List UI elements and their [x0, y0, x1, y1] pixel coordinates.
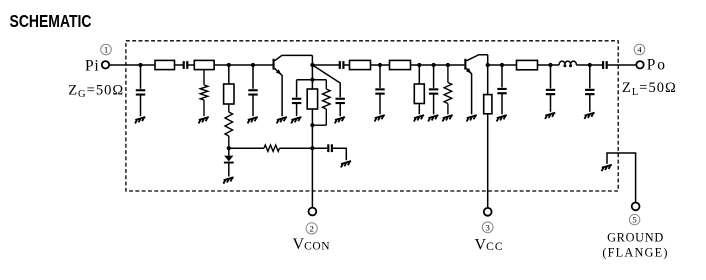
Vcon rail wire left	[229, 147, 264, 149]
node: bias rail junction	[310, 78, 314, 82]
capacitor C3 shunt	[252, 65, 254, 116]
terminal Po pin 4	[636, 61, 643, 68]
svg-text:3: 3	[486, 222, 490, 232]
ground D1	[223, 177, 233, 183]
module outline dashed box	[126, 41, 618, 191]
svg-text:(FLANGE): (FLANGE)	[602, 246, 668, 260]
capacitor C10 shunt	[550, 65, 552, 112]
svg-text:Po: Po	[647, 57, 667, 74]
resistor R4 shunt box	[228, 65, 230, 84]
resistor R5 zigzag below R4	[225, 104, 233, 148]
inductor L1	[559, 61, 576, 65]
node: C3 junction	[251, 63, 255, 67]
resistor R6 box bias	[311, 80, 313, 89]
ground flange	[602, 165, 612, 171]
pin 2 circled number	[306, 223, 317, 234]
resistor R14 zigzag on Vcon rail	[264, 145, 280, 151]
ground C7	[375, 115, 385, 121]
terminal Vcc pin 3	[484, 208, 492, 216]
pin 4 circled number	[634, 44, 645, 55]
svg-text:SCHEMATIC: SCHEMATIC	[10, 11, 92, 31]
wire: R1 to C2	[175, 64, 183, 66]
terminal ground flange pin 5	[632, 203, 640, 211]
wire: C13 to ground stub	[333, 148, 347, 160]
resistor R7 zigzag bias	[312, 80, 330, 126]
resistor R9	[390, 60, 411, 69]
wire: R8 to R9	[371, 64, 390, 66]
terminal Vcon pin 2	[309, 208, 317, 216]
capacitor C11 shunt	[589, 65, 591, 112]
diode D1	[228, 148, 230, 155]
capacitor C8 shunt	[433, 65, 435, 114]
ground C3	[248, 117, 258, 123]
node: C9 junction	[500, 63, 504, 67]
transistor Q2	[464, 59, 466, 70]
wire: C12 to Po terminal	[608, 64, 637, 66]
capacitor C5 with diagonal feed	[312, 65, 340, 97]
ground C11	[584, 113, 594, 119]
wire: bias rail horizontal	[297, 79, 327, 81]
node X collector junction	[310, 63, 314, 67]
node: Vcc junction	[486, 63, 490, 67]
pin 5 circled number	[629, 214, 639, 224]
svg-text:ZL=50Ω: ZL=50Ω	[622, 80, 677, 98]
resistor R8	[350, 60, 371, 69]
capacitor C12 series output	[602, 61, 608, 69]
pin 5 flange bracket wire	[607, 153, 636, 203]
wire: L1 to C12	[576, 64, 602, 66]
node: R10 junction	[417, 63, 421, 67]
pin 3 circled number	[482, 222, 493, 233]
wire: node X to C6	[312, 64, 339, 66]
node: Vcon junction	[310, 146, 314, 150]
ground R11	[443, 115, 453, 121]
capacitor C6 series	[339, 61, 345, 69]
svg-text:2: 2	[310, 223, 314, 233]
ground C5	[335, 117, 345, 123]
ground Q1 emitter	[277, 117, 287, 123]
svg-text:1: 1	[104, 45, 108, 55]
resistor R12	[517, 60, 538, 69]
resistor R2	[194, 60, 214, 69]
wire: node X down to bias rail	[311, 65, 313, 80]
wire: bias bottom to Vcon rail	[311, 125, 313, 148]
svg-text:GROUND: GROUND	[607, 231, 664, 245]
node: C10 junction	[548, 63, 552, 67]
ground R3	[199, 117, 209, 123]
wire: Q1 collector down to node X	[311, 55, 313, 65]
svg-text:Pi: Pi	[85, 57, 100, 74]
node: C8 junction	[432, 63, 436, 67]
wire: R9 to Q2 base	[411, 64, 465, 66]
node: bias bottom junction	[310, 123, 314, 127]
node: R11 junction	[446, 63, 450, 67]
capacitor C1 input shunt	[140, 65, 142, 116]
wire: C6 to R8	[344, 64, 349, 66]
svg-text:5: 5	[632, 215, 636, 225]
ground R10	[414, 115, 424, 121]
pin 1 circled number	[101, 44, 112, 55]
svg-text:4: 4	[637, 45, 642, 55]
wire: Vcon junction down to terminal	[311, 148, 313, 207]
capacitor C13 series on Vcon rail	[327, 144, 333, 152]
ground C1	[135, 117, 145, 123]
wire: Pi terminal to R1	[109, 64, 155, 66]
node: R4 top	[227, 63, 231, 67]
wire: C2 to R2	[188, 64, 194, 66]
node: input junction	[138, 63, 142, 67]
terminal Pi pin 1	[102, 61, 109, 68]
resistor R11 shunt zigzag	[444, 65, 452, 114]
node: diode junction on Vcon rail	[227, 146, 231, 150]
resistor R1	[155, 60, 175, 69]
ground C8	[428, 115, 438, 121]
wire: Q2 collector down to main line	[487, 55, 489, 65]
resistor R13 Vcc feed box	[487, 65, 489, 95]
transistor Q1	[273, 59, 275, 70]
wire: Vcc node to R12	[488, 64, 517, 66]
ground C4	[291, 117, 301, 123]
resistor R10 shunt box	[418, 65, 420, 84]
capacitor C2 series	[183, 61, 189, 69]
node: C11 junction	[588, 63, 592, 67]
svg-text:ZG=50Ω: ZG=50Ω	[68, 82, 124, 100]
resistor R3 shunt zigzag under R2	[200, 70, 208, 117]
ground C9	[497, 115, 507, 121]
ground C13	[341, 161, 351, 167]
capacitor C7 shunt	[379, 65, 381, 114]
wire: R2 to Q1 base	[214, 64, 272, 66]
wire: R12 to L1	[538, 64, 560, 66]
capacitor C4 bias	[296, 80, 298, 117]
capacitor C9 shunt	[501, 65, 503, 114]
Vcon rail wire right	[280, 147, 328, 149]
node: C7 junction	[378, 63, 382, 67]
ground C10	[545, 113, 555, 119]
ground Q2 emitter	[467, 115, 477, 121]
